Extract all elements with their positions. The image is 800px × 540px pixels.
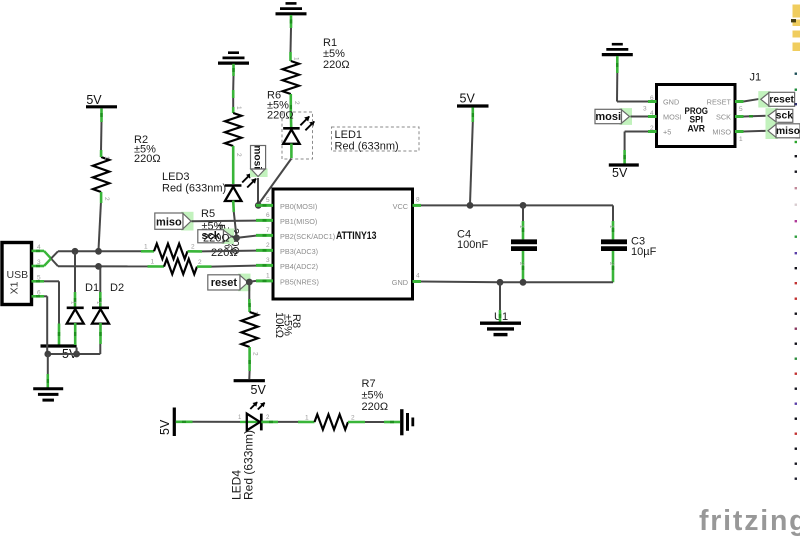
label LED1 (dashed frame) xyxy=(332,127,420,153)
svg-text:6: 6 xyxy=(37,289,41,296)
svg-text:10µF: 10µF xyxy=(631,246,657,258)
label R4 rotated (overlapping cluster) xyxy=(215,224,241,255)
diode D2 xyxy=(92,301,109,324)
resistor R6 (column) xyxy=(225,113,241,146)
IC U1 ATTINY13 body xyxy=(273,189,413,299)
net flag sck xyxy=(198,229,234,245)
node R2 junction xyxy=(95,248,102,255)
svg-text:4: 4 xyxy=(416,273,420,280)
svg-text:Red (633nm): Red (633nm) xyxy=(162,183,226,195)
label R7 xyxy=(362,378,389,413)
node GND branch xyxy=(497,279,504,286)
svg-text:±5%: ±5% xyxy=(362,390,384,402)
svg-text:7: 7 xyxy=(266,227,270,234)
ATTINY13 left pins xyxy=(256,197,335,286)
capacitor C3 xyxy=(601,205,627,282)
svg-text:5: 5 xyxy=(266,197,270,204)
svg-text:10kΩ: 10kΩ xyxy=(273,312,285,338)
wire ground to J1 GND xyxy=(617,56,648,102)
svg-text:fritzing: fritzing xyxy=(699,505,800,537)
net flag miso (J1) xyxy=(766,123,800,139)
wire row A (to R3) xyxy=(58,250,141,252)
power symbol 5V (above C4) xyxy=(457,92,489,107)
svg-text:PB4(ADC2): PB4(ADC2) xyxy=(280,262,318,271)
label LED4 (rotated) xyxy=(230,430,256,500)
label C3 xyxy=(631,236,657,259)
svg-text:2: 2 xyxy=(266,242,270,249)
svg-text:2: 2 xyxy=(293,101,300,105)
wire +5 to 5V xyxy=(625,132,648,165)
node PB2 xyxy=(233,235,240,242)
wire bottom bus under USB xyxy=(47,353,100,355)
wire VCC rail xyxy=(421,204,613,206)
wire node to PB5 pin xyxy=(249,280,256,283)
wire R6 to LED3 xyxy=(233,146,242,184)
wire ground to R6 xyxy=(233,64,242,113)
wire 5V to R2 xyxy=(100,109,103,158)
J1 left pins xyxy=(643,95,682,137)
svg-text:RESET: RESET xyxy=(707,98,732,107)
svg-text:2: 2 xyxy=(235,153,242,157)
node C4 top xyxy=(520,202,527,209)
net flag reset (J1) xyxy=(758,91,794,107)
svg-text:D1: D1 xyxy=(85,282,99,294)
wire 5V down to VCC rail xyxy=(470,108,473,205)
LED LED4 xyxy=(247,402,265,431)
wire mosi to J1 MOSI xyxy=(631,116,649,118)
power symbol 5V (bottom row, rotated) xyxy=(158,408,174,437)
ATTINY13 VCC pin xyxy=(393,197,421,212)
svg-text:6: 6 xyxy=(650,95,654,102)
svg-text:4: 4 xyxy=(37,244,41,251)
wire miso to PB1 xyxy=(192,220,257,223)
svg-text:220Ω: 220Ω xyxy=(362,401,389,413)
svg-text:1: 1 xyxy=(235,106,242,110)
wire GND rail xyxy=(421,281,613,284)
svg-text:R7: R7 xyxy=(362,378,376,390)
black corner behind miso flag xyxy=(796,124,800,139)
resistor R8 xyxy=(241,312,257,347)
IC J1 PROG SPI AVR body xyxy=(657,85,736,147)
svg-text:6: 6 xyxy=(266,212,270,219)
svg-text:D2: D2 xyxy=(110,282,124,294)
svg-text:Red (633nm): Red (633nm) xyxy=(335,141,399,153)
LED LED1 xyxy=(283,116,315,158)
wire row B (to R4) xyxy=(58,265,148,267)
ground (above R6/LED3 column) xyxy=(218,53,249,63)
svg-text:GND: GND xyxy=(663,98,679,107)
svg-text:4: 4 xyxy=(650,110,654,117)
svg-text:220Ω: 220Ω xyxy=(211,247,238,259)
ATTINY13 GND pin xyxy=(392,273,421,288)
svg-text:5: 5 xyxy=(739,106,743,113)
wire USB pin5 to 5V xyxy=(44,281,59,323)
svg-text:mosi: mosi xyxy=(252,145,263,169)
USB connector X1 xyxy=(2,243,32,305)
svg-text:+5: +5 xyxy=(663,128,671,137)
svg-text:1: 1 xyxy=(144,244,148,251)
svg-text:1: 1 xyxy=(305,415,309,422)
wire MISO to miso flag xyxy=(744,130,768,133)
wire to USB ground xyxy=(47,354,49,388)
fritzing logo xyxy=(699,505,800,537)
svg-text:J1: J1 xyxy=(750,72,762,84)
svg-text:PB2(SCK/ADC1): PB2(SCK/ADC1) xyxy=(280,232,335,241)
svg-text:5: 5 xyxy=(37,274,41,281)
node ground junction xyxy=(44,351,51,358)
svg-text:MOSI: MOSI xyxy=(663,113,682,122)
resistor R4 (row B) xyxy=(148,259,212,275)
node PB5 xyxy=(246,279,253,286)
power symbol 5V (USB bar) xyxy=(41,346,78,361)
svg-text:ATTINY13: ATTINY13 xyxy=(336,230,377,242)
wire reset node down to R8 xyxy=(249,282,258,315)
svg-text:5V: 5V xyxy=(460,92,476,106)
svg-text:220Ω: 220Ω xyxy=(203,233,230,245)
svg-text:1: 1 xyxy=(293,57,300,61)
label LED3 xyxy=(162,171,226,195)
ground (USB) xyxy=(33,389,63,400)
power symbol 5V (USB) stem xyxy=(58,324,61,346)
net flag mosi (J1) xyxy=(595,108,632,125)
node D1 junction xyxy=(72,248,79,255)
wire node to PB2 pin xyxy=(237,236,256,238)
svg-text:3: 3 xyxy=(37,259,41,266)
wire D1 to 5V xyxy=(74,323,77,345)
wire R2 to node row A xyxy=(99,203,101,250)
wire ground to R1 xyxy=(291,15,300,61)
svg-text:5V: 5V xyxy=(612,166,628,180)
label 220 ohm overlap xyxy=(203,233,238,260)
wire mosi flag to PB0 node xyxy=(257,178,259,205)
svg-text:PB3(ADC3): PB3(ADC3) xyxy=(280,247,318,256)
resistor R2 xyxy=(93,150,110,203)
resistor R3 (row A) xyxy=(141,244,202,259)
net flag reset xyxy=(208,274,251,292)
ground (above R1/LED1 column) xyxy=(276,3,307,13)
svg-text:8: 8 xyxy=(416,197,420,204)
USB pin stubs + numbers xyxy=(32,244,45,296)
net flag miso xyxy=(155,212,194,231)
diode D1 xyxy=(67,301,84,324)
svg-text:USB: USB xyxy=(7,269,29,281)
label U1 xyxy=(494,311,508,323)
svg-text:2: 2 xyxy=(252,352,259,356)
svg-text:PB1(MISO): PB1(MISO) xyxy=(280,217,317,226)
svg-text:MISO: MISO xyxy=(712,128,731,137)
wire LED1 to PB0 node xyxy=(258,159,291,205)
wire LED4 to R7 xyxy=(261,415,314,423)
svg-text:LED1: LED1 xyxy=(335,129,363,141)
wire R7 to ground xyxy=(348,415,400,423)
label R5 (overlapping cluster) xyxy=(201,208,224,233)
wire D2 branch xyxy=(99,266,101,307)
dotted column (right edge) xyxy=(795,73,797,480)
label R8 (rotated) xyxy=(273,312,302,338)
svg-text:2: 2 xyxy=(191,244,195,251)
capacitor C4 xyxy=(511,205,537,282)
svg-text:reset: reset xyxy=(211,277,238,289)
svg-text:220Ω: 220Ω xyxy=(323,59,350,71)
power symbol 5V (J1) xyxy=(609,165,639,180)
svg-text:2: 2 xyxy=(198,259,202,266)
svg-text:5V: 5V xyxy=(251,383,267,397)
label J1 xyxy=(750,72,762,84)
svg-text:220Ω: 220Ω xyxy=(267,110,294,122)
wire 5V to LED4 xyxy=(176,415,261,422)
svg-text:reset: reset xyxy=(769,95,794,106)
svg-text:mosi: mosi xyxy=(595,111,621,123)
svg-text:5V: 5V xyxy=(158,419,172,435)
ground (above J1) xyxy=(602,44,633,54)
label R1 xyxy=(323,37,350,71)
wire USB pin6 down xyxy=(44,296,47,354)
svg-text:100nF: 100nF xyxy=(457,239,488,251)
LED1 selection dashed box xyxy=(282,112,313,159)
wire D1 branch xyxy=(74,251,76,307)
svg-text:sck: sck xyxy=(776,111,793,122)
svg-text:miso: miso xyxy=(776,126,800,137)
wire R4 to PB4 xyxy=(212,266,257,267)
node 5V junction xyxy=(73,348,80,358)
wire crossing X (USB pins 4/3 swap) xyxy=(44,251,58,266)
label D1 xyxy=(85,282,99,294)
svg-text:3: 3 xyxy=(266,257,270,264)
node PB0 xyxy=(255,202,262,209)
wire R8 to 5V xyxy=(249,347,258,379)
svg-text:1: 1 xyxy=(103,156,110,160)
svg-text:R5: R5 xyxy=(201,208,215,220)
LED LED3 xyxy=(225,173,257,201)
svg-text:miso: miso xyxy=(156,217,182,229)
label C4 xyxy=(457,229,488,251)
svg-text:GND: GND xyxy=(392,278,408,287)
yellow dashes (top-right edge) xyxy=(791,5,800,52)
ground (mid, under ATTINY) xyxy=(480,323,521,334)
svg-text:SCK: SCK xyxy=(716,113,731,122)
svg-text:1: 1 xyxy=(151,259,155,266)
power symbol 5V (top-left, feeds R2) xyxy=(86,93,117,107)
svg-text:1: 1 xyxy=(739,136,743,143)
net flag sck (J1) xyxy=(766,108,794,123)
power symbol 5V (under R8) xyxy=(234,381,267,397)
wire LED3 to sck node xyxy=(233,201,236,237)
label R2 xyxy=(134,134,161,165)
wire GND branch down xyxy=(499,282,501,322)
node D2 junction xyxy=(95,263,102,270)
svg-text:1: 1 xyxy=(266,273,270,280)
ground (bottom row, rotated right) xyxy=(402,409,413,435)
svg-text:5V: 5V xyxy=(86,93,102,107)
svg-text:2: 2 xyxy=(650,125,654,132)
wire reset flag to PB5 node xyxy=(248,281,251,283)
svg-text:220Ω: 220Ω xyxy=(134,153,161,165)
net flag mosi (vertical, above PB0 node) xyxy=(250,145,268,177)
svg-text:X1: X1 xyxy=(9,281,21,294)
svg-text:VCC: VCC xyxy=(393,202,408,211)
svg-text:2: 2 xyxy=(103,197,110,201)
resistor R7 xyxy=(315,414,349,429)
wire R3 to PB3 xyxy=(202,250,256,253)
svg-text:PB0(MOSI): PB0(MOSI) xyxy=(280,202,317,211)
wire RESET to reset flag xyxy=(744,99,761,102)
label D2 xyxy=(110,282,124,294)
wire D2 to bus xyxy=(99,323,102,354)
svg-text:3: 3 xyxy=(643,106,647,113)
svg-text:PB5(NRES): PB5(NRES) xyxy=(280,277,319,286)
svg-text:Red (633nm): Red (633nm) xyxy=(242,430,256,500)
node VCC/5V xyxy=(467,202,474,209)
wire R1 to LED1 xyxy=(291,94,300,127)
wire SCK to sck flag xyxy=(744,115,768,118)
svg-text:2: 2 xyxy=(351,415,355,422)
svg-text:AVR: AVR xyxy=(688,123,706,134)
svg-text:LED3: LED3 xyxy=(162,171,190,183)
resistor R1 (column) xyxy=(283,61,299,94)
label R6 xyxy=(267,90,294,122)
wire sck flag to PB2 node xyxy=(232,236,237,238)
J1 right pins xyxy=(707,98,744,144)
node C4 bottom xyxy=(520,279,527,286)
